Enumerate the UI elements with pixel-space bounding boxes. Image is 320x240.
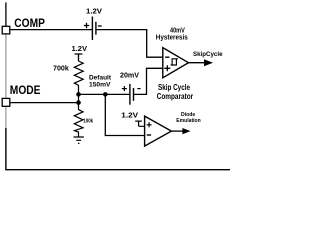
wire COMP pin to battery V1 [10,29,92,31]
resistor R1 700k zigzag [74,61,83,94]
svg-text:MODE: MODE [10,83,41,97]
arrowhead diode emulation output [182,128,190,134]
arrowhead SkipCycle output [204,59,213,66]
svg-text:Default: Default [89,74,112,81]
battery V2 minus sign [137,88,140,90]
svg-text:1.2V: 1.2V [86,9,102,16]
svg-text:Emulation: Emulation [176,118,201,124]
wire node B down and right to U2 inverting input [105,94,144,135]
wire battery V1 to corner, down, into U1 inverting input [96,30,163,58]
svg-text:Skip Cycle: Skip Cycle [158,83,191,92]
svg-text:Comparator: Comparator [157,92,194,101]
wire battery V2 to U1 non-inverting input [134,68,163,94]
U1 plus sign (non-inverting input) [164,65,170,71]
svg-text:100k: 100k [83,118,94,124]
wire MODE pin to node C [10,102,79,104]
battery V2 plus sign [122,86,127,91]
battery V3 1.2V reference (bar + stem into U2 plus input) [135,121,144,126]
junction node C (MODE pin net) [76,100,81,105]
svg-text:Hysteresis: Hysteresis [156,33,188,42]
svg-text:20mV: 20mV [120,72,139,79]
IC boundary left rail (top black segment above COMP pin) [5,2,7,26]
comparator U1 skip-cycle triangle [163,48,189,78]
wire node A to battery V2 [79,93,130,95]
pin MODE (square pad) [2,98,10,106]
svg-text:150mV: 150mV [89,82,111,89]
svg-text:700k: 700k [53,65,69,72]
IC boundary left rail (black segment to bottom-left corner) [6,128,230,170]
battery V1 1.2V negative plate [95,22,97,35]
battery V1 minus sign [98,25,102,27]
wire node A down to node C [78,94,80,102]
battery V1 1.2V positive plate [91,17,93,41]
pin COMP (square pad) [2,26,10,34]
U1 minus sign (inverting input) [165,56,169,58]
junction node B (to diode comparator) [103,92,108,97]
svg-text:SkipCycle: SkipCycle [193,51,223,58]
svg-text:1.2V: 1.2V [72,46,88,53]
U1 hysteresis symbol [171,59,178,65]
junction node A (divider top) [76,92,81,97]
battery V2 20mV positive plate [129,84,131,105]
wire U2 output with arrow [171,130,184,132]
supply 1.2V bar above resistor R1 [75,54,83,61]
svg-text:COMP: COMP [14,16,45,30]
resistor R2 100k zigzag [74,103,83,137]
IC boundary left rail (gray segment between COMP and MODE pins) [5,34,7,98]
wire U1 output with arrow SkipCycle [188,62,205,64]
comparator U2 diode emulation triangle [145,116,172,146]
battery V2 20mV negative plate [133,88,135,101]
battery V1 plus sign [84,23,89,28]
svg-text:1.2V: 1.2V [121,113,138,120]
U2 plus sign [147,122,152,127]
U2 minus sign [147,134,151,136]
ground symbol [74,137,84,143]
IC boundary left rail (gray segment below MODE pin) [5,107,7,128]
